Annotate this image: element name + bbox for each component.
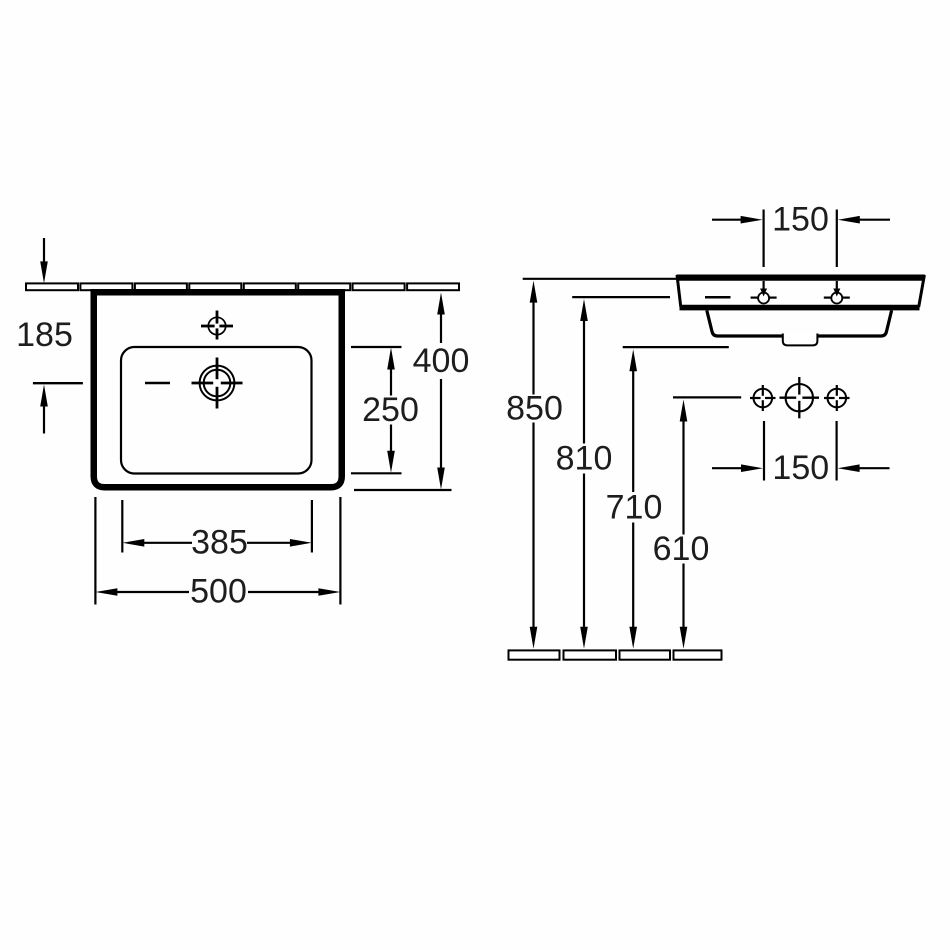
svg-text:150: 150	[772, 449, 829, 487]
fixing hole crosshair left (side view)	[750, 385, 776, 411]
drain crosshair with double circle (plan)	[192, 358, 243, 409]
fixing hole crosshair right (side view)	[824, 385, 850, 411]
dimension 150 lower line with arrows	[712, 464, 890, 472]
centerline dash (side view)	[705, 296, 731, 299]
dimension 850 line with arrows	[530, 281, 538, 649]
washbasin outer outline (plan)	[94, 292, 342, 487]
dimension 400 bottom extension line	[354, 489, 452, 491]
svg-text:710: 710	[606, 489, 663, 527]
centerline dash left of drain	[145, 382, 170, 385]
dimension 810 extension line	[572, 296, 670, 298]
svg-text:150: 150	[772, 200, 829, 238]
svg-text:810: 810	[556, 440, 613, 478]
dimension 250 line with arrows	[387, 348, 395, 473]
dimension 500 extension lines	[95, 497, 340, 605]
dimension 185 lower tick and arrow	[33, 383, 83, 433]
dimension 810 line with arrows	[580, 299, 588, 649]
dimension 710 line with arrows	[629, 349, 637, 649]
basin left slanted side (side view)	[677, 275, 681, 307]
dimension 250 extension lines	[351, 347, 402, 473]
tap hole crosshair (plan)	[201, 311, 233, 340]
tap hole symbol right (side view)	[824, 289, 850, 304]
basin underside line (side view)	[680, 305, 920, 311]
dimension 610 extension line	[673, 396, 741, 398]
dimension 400 line with arrows	[437, 293, 445, 490]
basin right slanted side (side view)	[919, 275, 925, 307]
dimension 610 line with arrows	[680, 400, 688, 649]
svg-text:850: 850	[506, 390, 563, 428]
basin rim top line (side view)	[677, 275, 925, 281]
wall tile strip (plan, top)	[26, 283, 459, 290]
svg-text:185: 185	[16, 316, 73, 354]
inner basin bowl (plan)	[121, 347, 312, 474]
drain outlet stub (side view)	[783, 334, 818, 346]
tap hole symbol left (side view)	[751, 289, 777, 304]
dimension 385 line with arrows	[122, 539, 312, 547]
svg-text:400: 400	[413, 342, 470, 380]
svg-text:250: 250	[362, 391, 419, 429]
svg-text:500: 500	[190, 573, 247, 611]
floor tile strip (side view, bottom)	[509, 650, 722, 659]
dimension 150 lower extension lines	[764, 421, 837, 481]
drain hole crosshair middle (side view)	[780, 377, 820, 418]
dimension 385 extension lines	[122, 500, 312, 553]
basin lower tier (side view)	[707, 310, 892, 336]
dimension 185 upper arrow	[40, 238, 48, 283]
dimension 500 line with arrows	[95, 588, 340, 596]
dimension 850 extension line	[523, 278, 677, 280]
svg-text:385: 385	[191, 524, 248, 562]
dimension 710 extension line	[623, 346, 729, 348]
svg-text:610: 610	[653, 530, 710, 568]
dimension 150 top line with arrows	[712, 216, 890, 224]
dimension 150 top extension lines	[764, 210, 837, 292]
